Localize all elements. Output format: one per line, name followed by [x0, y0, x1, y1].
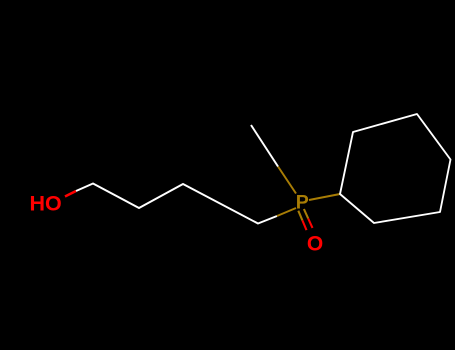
- bond P-ring olive: [309, 194, 340, 200]
- bond P-methyl up-left white half: [251, 125, 278, 167]
- double bond P=O line 1 red part: [302, 220, 306, 230]
- double bond P=O line 1 olive part: [298, 211, 302, 221]
- bond P-methyl up-left olive half: [278, 167, 296, 194]
- svg-text:HO: HO: [30, 192, 62, 216]
- bond C5-P olive half: [277, 208, 296, 216]
- svg-text:P: P: [296, 192, 309, 214]
- svg-text:O: O: [307, 232, 323, 255]
- bond O-C1 red stub at hydroxyl: [65, 191, 76, 197]
- double bond P=O line 2 red part: [308, 219, 312, 228]
- chain C1..C5 white zigzag: [76, 184, 277, 224]
- double bond P=O line 2 olive part: [304, 209, 308, 219]
- ring (six-membered carbocycle A-B-C-D-E-F): [340, 114, 451, 223]
